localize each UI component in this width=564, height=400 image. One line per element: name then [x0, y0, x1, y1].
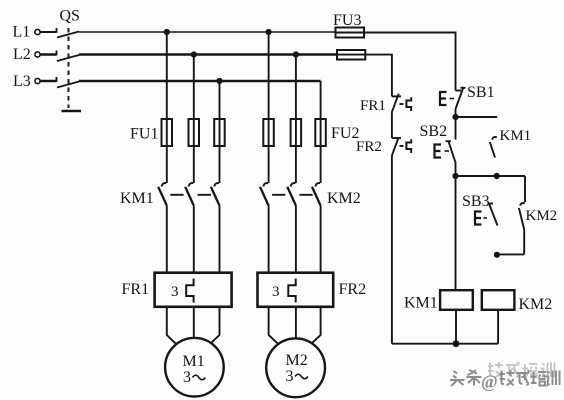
svg-text:3: 3 [171, 284, 179, 300]
svg-text:KM2: KM2 [519, 296, 553, 313]
svg-text:FU3: FU3 [333, 12, 361, 29]
wire fuse a to KM1 contact [166, 146, 168, 183]
svg-text:KM2: KM2 [526, 208, 558, 224]
svg-text:L1: L1 [13, 24, 31, 41]
wire dot to KM1 aux branch [456, 116, 498, 118]
fuse FU2-d [263, 119, 274, 146]
node junction dot L2/phase-b [191, 51, 197, 57]
svg-text:KM1: KM1 [500, 128, 532, 144]
wire KM1 coil to bottom [455, 310, 457, 344]
wire FR2 to motor M2 leads [269, 307, 321, 344]
wire fuse b to KM1 contact [193, 146, 195, 183]
switch QS pole 1 blade [57, 32, 79, 38]
pushbutton SB1 (NC stop) [440, 87, 466, 109]
motor M1 [165, 338, 224, 397]
wire SB2 to dot [455, 163, 457, 176]
svg-text:3: 3 [183, 369, 191, 386]
switch QS pole 2 blade [57, 55, 79, 61]
node dot at SB3 top [494, 173, 500, 179]
coil KM1 [440, 290, 473, 310]
svg-text:SB3: SB3 [462, 193, 490, 210]
contact KM2 auxiliary (NO) with branch wires [497, 176, 525, 254]
svg-text:L2: L2 [13, 46, 31, 63]
fuse FU1-b [189, 119, 200, 146]
contact KM1 auxiliary (NO) [490, 137, 497, 157]
wire phase b drop [193, 55, 195, 120]
svg-text:FR2: FR2 [339, 281, 367, 298]
svg-text:SB2: SB2 [420, 123, 448, 140]
wire L1 terminal to QS [40, 31, 56, 33]
node L2 terminal [13, 46, 40, 63]
switch QS handle bar [62, 110, 82, 113]
wire fuse e to KM2 contact [295, 146, 297, 183]
svg-text:@: @ [481, 372, 498, 392]
switch QS pole 3 blade [57, 82, 79, 88]
wire dot row y176 to KM2 aux corner [456, 175, 526, 177]
switch QS linkage dashed line [68, 28, 70, 108]
wire phase f drop [320, 81, 322, 119]
watermark faint copy [488, 362, 555, 378]
svg-text:FU1: FU1 [130, 126, 158, 143]
wire phase c drop [219, 81, 221, 119]
coil KM2 [482, 290, 515, 310]
watermark main [450, 370, 560, 392]
node dot below SB1 [452, 114, 458, 120]
contactor KM1 main contact pole b [185, 183, 194, 273]
wire fuse d to KM2 contact [268, 146, 270, 183]
svg-text:QS: QS [60, 8, 80, 25]
contactor KM1 main contact pole a [158, 183, 167, 273]
svg-text:FR1: FR1 [360, 98, 386, 114]
switch QS pole 2 tick [56, 51, 58, 56]
wire right rail to KM1 coil [455, 176, 457, 290]
svg-text:KM2: KM2 [327, 190, 361, 207]
wire KM2 coil to bottom [497, 310, 499, 344]
wire bus L1 [79, 31, 336, 33]
svg-text:3: 3 [286, 368, 294, 385]
node junction dot L2/phase-e [293, 51, 299, 57]
contactor KM2 main contact pole e [287, 183, 296, 273]
node L3 terminal [13, 73, 40, 90]
fuse FU2-f [315, 119, 326, 146]
wire bottom return [392, 343, 498, 345]
fuse FU1-c [214, 119, 225, 146]
svg-text:SB1: SB1 [467, 84, 495, 101]
switch QS pole 3 tick [56, 77, 58, 82]
svg-text:3: 3 [272, 284, 280, 300]
thermal relay FR2 heater box [258, 273, 334, 307]
svg-text:L3: L3 [13, 73, 31, 90]
motor M2 [266, 338, 325, 397]
contactor KM2 linkage dashes [272, 194, 313, 196]
node junction dot L3/phase-c [216, 78, 222, 84]
node dot below SB2 [452, 173, 458, 179]
fuse FU1-a [162, 119, 173, 146]
fuse FU3-1 [336, 28, 365, 38]
wire left rail FR1-FR2 [391, 112, 393, 138]
contactor KM1 linkage dashes [170, 194, 211, 196]
fuse FU3-2 [337, 50, 365, 60]
svg-text:M2: M2 [286, 352, 308, 369]
node junction dot L1/phase-d [266, 29, 272, 35]
pushbutton SB3 (NO start) [475, 203, 498, 226]
wire fuse c to KM1 contact [219, 146, 221, 183]
wire FU3-2 to left rail corner [365, 55, 392, 97]
thermal relay FR1 heater box [155, 273, 232, 307]
svg-text:M1: M1 [183, 353, 205, 370]
wire L3 terminal to QS [40, 80, 56, 82]
wire SB1 to dot [455, 109, 457, 117]
wire bus L3 [79, 80, 321, 83]
contactor KM2 main contact pole d [260, 183, 269, 273]
node dot at SB3 bottom [494, 252, 500, 258]
wire FR1 to motor M1 leads [167, 307, 220, 344]
svg-text:KM1: KM1 [120, 190, 154, 207]
wire left rail down to bottom [391, 156, 393, 344]
svg-text:FR1: FR1 [122, 281, 150, 298]
fuse FU2-e [291, 119, 302, 146]
wire phase e drop [295, 55, 297, 120]
wire phase d drop [268, 32, 270, 119]
wire phase a drop [166, 32, 168, 119]
pushbutton SB2 (NO start) [435, 117, 456, 163]
thermal contact FR2 (NC) [392, 137, 411, 155]
node L1 terminal [13, 24, 41, 41]
node junction dot L1/phase-a [164, 29, 170, 35]
contactor KM1 main contact pole c [211, 183, 220, 273]
contactor KM2 main contact pole f [312, 183, 321, 273]
switch QS pole 1 tick [56, 28, 58, 33]
wire fuse f to KM2 contact [320, 146, 322, 183]
svg-text:FR2: FR2 [356, 139, 382, 155]
wire L2 terminal to QS [40, 53, 56, 55]
svg-text:KM1: KM1 [404, 295, 438, 312]
wire bus L2 [79, 53, 337, 56]
wire FU3-1 to right rail corner [364, 33, 456, 91]
thermal contact FR1 (NC) [392, 94, 411, 112]
node dot bottom junction [453, 340, 460, 347]
